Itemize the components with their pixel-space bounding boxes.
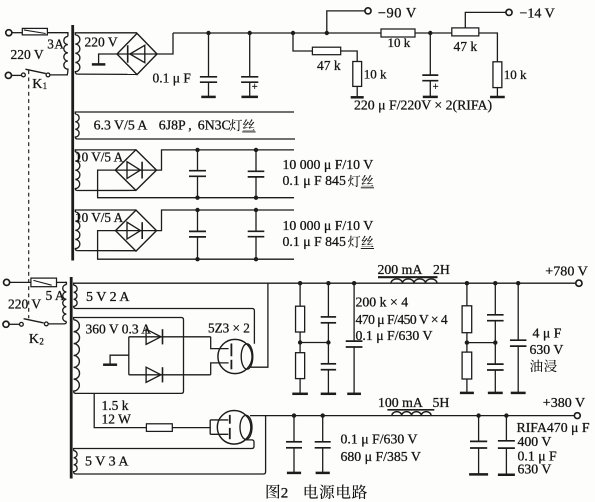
svg-text:220 μ F/220V × 2(RIFA): 220 μ F/220V × 2(RIFA) — [354, 97, 492, 113]
wire: 360V box bottom to 1.5k — [94, 393, 146, 427]
svg-text:47 k: 47 k — [317, 58, 341, 73]
wire: 1.5k to tube V2 plate — [172, 427, 210, 429]
svg-text:+380 V: +380 V — [543, 396, 585, 411]
svg-text:630 V: 630 V — [530, 342, 564, 357]
resistor 200k (lower right) — [462, 343, 472, 393]
svg-text:RIFA470 μ F: RIFA470 μ F — [517, 420, 590, 435]
wire: D1 to 5Z3 plate stub — [211, 337, 229, 349]
svg-text:2: 2 — [281, 485, 289, 501]
transformer T1 secondary winding 220 V — [75, 33, 80, 74]
svg-text:10 000 μ F/10 V: 10 000 μ F/10 V — [283, 218, 374, 233]
resistor 47k (first, -90V divider) — [312, 47, 340, 55]
capacitor 470uF no.1 (left) — [321, 283, 336, 342]
label: figure caption — [267, 484, 367, 501]
svg-text:200 mA: 200 mA — [378, 262, 423, 277]
svg-text:1: 1 — [43, 81, 48, 91]
wire: winding1 top to bridge B2 — [78, 149, 136, 151]
svg-text:+: + — [252, 82, 258, 93]
wire: 47k no.2 to 10k no.2 — [479, 33, 498, 62]
transformer T2 core — [70, 277, 73, 479]
transformer T1 primary winding 220V — [64, 33, 68, 75]
wire: -90V takeoff — [327, 11, 365, 33]
node: row2 junctions — [195, 208, 199, 212]
node: cap chain mid left — [326, 340, 330, 344]
resistor 200k (upper right) — [462, 283, 472, 342]
wire: diode D1 branch — [129, 336, 211, 338]
wire: 5V3A top lead — [76, 448, 252, 450]
svg-text:10 k: 10 k — [364, 66, 387, 81]
node: junction 0.1uF cap — [206, 31, 210, 35]
bridge rectifier B2 — [115, 150, 156, 191]
ground: below right 200k chain — [460, 392, 474, 395]
node: +380V output terminal — [574, 413, 580, 419]
svg-text:5 V 3 A: 5 V 3 A — [85, 454, 129, 469]
svg-text:−14 V: −14 V — [520, 7, 555, 22]
node: +780 rail junctions left network — [298, 281, 302, 285]
ground: bridge B1 negative — [92, 54, 117, 64]
svg-text:10 V/5 A: 10 V/5 A — [75, 149, 124, 164]
wire: dashed gang link K1-K2 — [28, 70, 30, 318]
svg-text:220 V: 220 V — [11, 47, 44, 62]
wire: V2 filament bottom to 5V3A winding — [244, 440, 254, 449]
wire: T1 220V secondary bottom to bridge B1 — [78, 73, 137, 75]
wire: winding2 bottom to bridge B3 — [78, 250, 136, 252]
wire: branch to 47k divider — [293, 33, 312, 51]
node: AC input terminal top (bottom transformer) — [4, 279, 31, 285]
svg-text:0.1 μ F/630 V: 0.1 μ F/630 V — [356, 328, 433, 343]
wire: B3 minus to bottom rail row2 — [98, 231, 294, 260]
svg-text:0.1 μ F 845: 0.1 μ F 845 — [283, 234, 346, 249]
node: divider mid junction left — [298, 340, 302, 344]
ground: below first 10k — [351, 86, 364, 97]
wire: 360V winding loop — [76, 318, 184, 394]
choke L1 200mA 2H — [378, 277, 438, 283]
wire: 5V3A bottom lead to +380 rail — [76, 416, 266, 474]
capacitor RIFA 470uF/400V — [469, 416, 488, 475]
diode D1 (5Z3 plate 1) — [146, 329, 162, 344]
svg-text:−90 V: −90 V — [378, 5, 417, 21]
transformer T2 winding 5V 2A — [74, 283, 78, 308]
capacitor 220uF/220V no.2 (polar) — [422, 33, 438, 97]
wire: negative HV rail — [173, 32, 381, 34]
wire: B3 plus to top rail row2 — [157, 210, 295, 231]
wire: T1 220V secondary top to bridge B1 — [78, 32, 137, 34]
ground: below second 10k — [490, 88, 505, 97]
node: junction 220uF cap 2 — [428, 31, 432, 35]
capacitor 470uF no.2 (right) — [487, 343, 504, 393]
wire: V1 filament to +780 rail — [250, 283, 268, 367]
svg-text:12 W: 12 W — [102, 412, 132, 427]
wire: 6.3V filament pair top — [78, 111, 294, 113]
svg-text:630 V: 630 V — [518, 461, 552, 476]
svg-text:680 μ F/385 V: 680 μ F/385 V — [341, 449, 421, 464]
capacitor 680uF/385V — [315, 416, 331, 473]
svg-text:5H: 5H — [433, 395, 450, 410]
node: AC terminal bottom / switch K2 — [3, 321, 20, 327]
wire: D2 to 5Z3 plate stub — [211, 363, 229, 375]
fuse F2 5 A — [31, 278, 67, 287]
resistor 10k series (horizontal) — [381, 29, 415, 37]
resistor 200k (upper left) — [296, 283, 305, 342]
capacitor 0.1uF/630V (380 rail left) — [286, 416, 302, 473]
node: +380 rail junctions right — [476, 413, 480, 417]
tube V1 5Z3 rectifier — [218, 339, 253, 373]
node: cap chain mid right — [493, 340, 497, 344]
svg-text:360 V 0.3 A: 360 V 0.3 A — [86, 322, 152, 337]
transformer T2 winding 360V 0.3A — [74, 318, 80, 394]
label: 0.1 uF 845 filament (row2) — [283, 234, 375, 249]
capacitor 0.1uF row2 — [248, 210, 265, 259]
resistor 200k (lower left) — [296, 343, 305, 394]
transformer T1 core — [71, 25, 74, 261]
wire: 6.3V filament pair bottom — [78, 138, 295, 140]
ground: below left 200k chain — [292, 393, 308, 396]
svg-text:2: 2 — [39, 337, 44, 347]
svg-text:6J8P: 6J8P — [159, 117, 186, 132]
capacitor 220uF/220V no.1 (polar) — [241, 33, 258, 97]
node: -14V output terminal — [506, 9, 512, 15]
resistor 1.5k 12W — [146, 424, 172, 432]
wire: winding1 bottom to bridge B2 — [78, 189, 136, 191]
resistor 10k vertical (first) — [353, 62, 362, 87]
svg-text:2H: 2H — [433, 262, 450, 277]
capacitor 0.1uF/630V (left) — [346, 283, 363, 394]
wire: diode pair anode bus with center-tap — [128, 337, 130, 375]
node: +780V output terminal — [576, 280, 582, 286]
svg-text:10 000 μ F/10 V: 10 000 μ F/10 V — [283, 157, 374, 172]
transformer T1 winding 10V/5A no.1 — [75, 150, 80, 191]
svg-text:+: + — [433, 82, 439, 93]
node: -90V output terminal — [365, 8, 371, 14]
svg-text:220 V: 220 V — [85, 34, 118, 49]
svg-text:0.1 μ F 845: 0.1 μ F 845 — [283, 173, 346, 188]
resistor 47k no.2 (-14V) — [452, 28, 479, 36]
node: AC input terminal bottom / switch K1 pole — [5, 72, 21, 78]
svg-text:3 A: 3 A — [47, 36, 64, 51]
svg-text:470 μ F/450 V × 4: 470 μ F/450 V × 4 — [356, 312, 448, 327]
wire: link R to C mid (left) — [300, 342, 328, 344]
tube V2 rectifier (triode-connected) — [217, 411, 252, 445]
svg-text:47 k: 47 k — [454, 39, 478, 54]
wire: B2 minus to bottom rail row1 — [98, 170, 294, 198]
resistor 10k vertical (second) — [493, 62, 502, 88]
wire: 47k to 10k vertical — [341, 51, 358, 62]
wire: +380V rail — [250, 415, 574, 417]
switch K2 — [20, 319, 67, 326]
wire: -14V takeoff from 47k no.2 — [465, 12, 506, 28]
bridge rectifier B1 — [117, 33, 157, 74]
wire: diode D2 branch — [129, 374, 211, 376]
choke L2 100mA 5H — [387, 410, 434, 416]
svg-text:10 V/5 A: 10 V/5 A — [75, 210, 124, 225]
node: AC input terminal top (220V mains upper) — [6, 30, 23, 36]
wire: 5V2A bottom lead to 5Z3 filament — [76, 309, 254, 344]
ground: 360V winding center tap — [103, 355, 129, 365]
capacitor 0.1uF/630V (output) — [498, 416, 515, 475]
svg-text:K: K — [29, 332, 39, 347]
svg-text:5Z3 × 2: 5Z3 × 2 — [208, 321, 250, 336]
svg-text:4 μ F: 4 μ F — [533, 326, 562, 341]
svg-text:10 k: 10 k — [388, 35, 411, 50]
wire: winding2 top to bridge B3 — [78, 209, 136, 211]
label: 0.1 uF 845 filament (row1) — [283, 173, 375, 188]
svg-text:5 A: 5 A — [46, 288, 65, 303]
bridge rectifier B3 — [116, 210, 157, 251]
wire: V2 plate bracket — [210, 420, 228, 434]
wire: +780V rail — [76, 282, 576, 284]
wire: bridge B1 output up to negative rail — [157, 33, 173, 54]
wire: rail 10k to 47k no.2 — [415, 32, 452, 34]
transformer T2 primary winding 220V — [63, 282, 67, 321]
label: 6.3 V/5 A 6J8P, 6N3C lamp filament — [94, 117, 256, 132]
diode D2 (5Z3 plate 2) — [146, 367, 162, 382]
svg-text:400 V: 400 V — [518, 434, 552, 449]
fuse F1 3 A — [22, 28, 68, 35]
node: +780 rail junctions right network — [465, 281, 469, 285]
svg-text:6N3C: 6N3C — [198, 117, 231, 132]
node: junction 220uF cap 1 — [248, 31, 252, 35]
capacitor 0.1uF row1 — [248, 150, 265, 198]
svg-text:+780 V: +780 V — [545, 264, 588, 280]
node: junction -90V takeoff — [325, 31, 329, 35]
label: oil-immersed — [530, 360, 557, 373]
svg-text:10 k: 10 k — [504, 67, 527, 82]
svg-text:5 V 2 A: 5 V 2 A — [86, 290, 130, 305]
svg-text:100 mA: 100 mA — [378, 395, 423, 410]
svg-text:0.1 μ F: 0.1 μ F — [153, 71, 192, 86]
svg-text:6.3 V/5 A: 6.3 V/5 A — [94, 117, 148, 132]
capacitor 10000uF/10V row1 — [189, 150, 206, 198]
svg-text:0.1 μ F/630 V: 0.1 μ F/630 V — [341, 432, 418, 447]
capacitor 4uF 630V oil — [510, 283, 527, 393]
capacitor 470uF no.2 (left) — [321, 343, 336, 394]
svg-text:220 V: 220 V — [8, 297, 41, 312]
wire: link R to C mid (right) — [467, 342, 495, 344]
node: +380 rail junctions left — [292, 413, 296, 417]
capacitor 10000uF/10V row2 — [189, 210, 206, 259]
transformer T2 winding 5V 3A — [74, 449, 78, 475]
svg-text:K: K — [32, 77, 42, 92]
node: junction divider branch — [291, 31, 295, 35]
capacitor 470uF no.1 (right) — [487, 283, 504, 342]
svg-text:,: , — [188, 117, 191, 132]
svg-text:200 k × 4: 200 k × 4 — [356, 294, 409, 309]
node: row1 junctions — [195, 148, 199, 152]
transformer T1 winding 10V/5A no.2 — [75, 210, 80, 251]
node: divider mid junction right — [465, 340, 469, 344]
wire: B2 plus to top rail row1 — [157, 150, 295, 170]
capacitor 0.1uF (B1 filter) — [200, 33, 217, 97]
switch K1 — [22, 69, 68, 77]
transformer T1 winding 6.3V/5A — [75, 112, 79, 139]
